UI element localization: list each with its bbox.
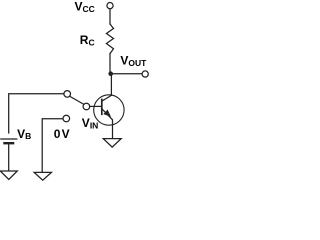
switch arm: [70, 96, 84, 104]
wire battery to ground: [8, 144, 10, 171]
svg-text:VB: VB: [17, 127, 31, 141]
wire VB to switch throw 1: [9, 94, 64, 133]
switch throw 1 terminal: [64, 91, 71, 98]
wire VCC terminal to resistor: [109, 9, 111, 24]
svg-text:0: 0: [54, 127, 61, 141]
svg-text:VOUT: VOUT: [120, 53, 147, 68]
terminal VCC: [107, 3, 113, 9]
resistor RC: [106, 24, 113, 54]
wire emitter to ground: [112, 125, 114, 139]
wire pole to base: [90, 105, 102, 107]
wire resistor to collector node: [109, 54, 111, 74]
node collector junction: [108, 71, 113, 76]
ground 0V: [34, 172, 51, 180]
ground battery: [0, 171, 17, 180]
transistor Q1 circle: [94, 95, 124, 125]
transistor Q1 base bar: [101, 100, 103, 115]
switch pole terminal: [83, 103, 90, 110]
wire node to transistor collector: [110, 74, 112, 96]
battery VB plate negative: [5, 142, 14, 144]
wire node to VOUT terminal: [111, 73, 142, 75]
switch throw 2 terminal: [63, 115, 70, 122]
terminal VOUT: [142, 71, 148, 77]
transistor Q1 emitter arrow: [104, 110, 110, 116]
transistor Q1 emitter lead: [102, 109, 113, 125]
transistor Q1 collector lead: [102, 95, 111, 101]
svg-text:V: V: [62, 127, 70, 141]
battery VB plate positive: [1, 138, 17, 140]
ground emitter: [103, 139, 121, 148]
svg-text:RC: RC: [80, 33, 95, 47]
svg-text:VCC: VCC: [75, 0, 95, 14]
wire throw 2 to 0V ground: [42, 119, 63, 173]
